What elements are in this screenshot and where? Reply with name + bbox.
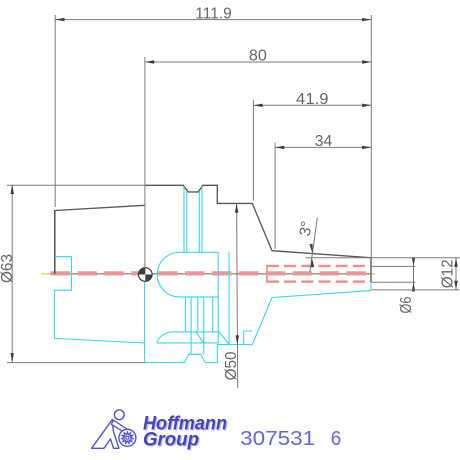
dimension 34 [275,133,371,249]
svg-text:Ø6: Ø6 [398,297,415,314]
red highlight dashed bottom edge [267,280,370,283]
part upper outline: HSK shank taper and left face [55,185,371,282]
lower outline: left face bottom [54,290,144,362]
logo arm [111,420,130,434]
gauge plane center mark circle [139,268,153,282]
centerline (thin gray axis) [41,273,372,275]
svg-text:80: 80 [249,48,267,65]
centerline yellow end cap left [41,273,50,275]
centerline yellow end cap right [370,273,375,275]
Hoffmann Group logo: head [114,410,124,420]
svg-text:Ø63: Ø63 [0,254,16,283]
dimension Ø63 [0,185,145,363]
lower internal wing blade [157,332,170,343]
lower internal wing diagonal [196,332,204,343]
internal bore cavity (cyan, upper) : groove verticals [184,187,202,253]
dimension Ø50 [223,203,240,388]
lower internal horizontal shelf [170,331,218,333]
internal bore cavity outline with round nose [157,252,218,297]
internal vertical x=218.2 [217,252,219,343]
lower internal clamping detail verticals [185,297,212,355]
groove bottom line (cyan) [189,353,201,355]
logo body triangle [92,420,119,449]
logo wheel star [121,431,134,444]
svg-text:41.9: 41.9 [296,91,329,108]
angle dimension 3° leader [297,218,318,273]
lower internal relief box [244,331,253,345]
red highlight dashed top edge [267,265,370,268]
logo text shadow [144,415,228,452]
dimension 41.9 [253,91,371,201]
red highlight box of clamping bore Ø6 : left edge [266,265,268,283]
internal vertical x=229.1 [228,252,230,344]
lower outline (cyan layer): shank step [54,257,71,291]
logo text [143,413,227,450]
svg-text:3°: 3° [297,220,316,238]
dimension 111.9 [55,5,371,258]
logo wheel [119,429,136,446]
dimension Ø6 [372,257,416,313]
svg-text:34: 34 [315,133,333,150]
svg-text:Ø12: Ø12 [439,259,456,288]
centerline red dashes [51,271,371,275]
lower internal diagonal [218,331,229,345]
lower outline: flange bottom with groove [145,282,371,363]
dimension Ø12 [306,258,460,290]
lower internal wing bottom line [157,342,218,344]
svg-text:Ø50: Ø50 [223,351,240,380]
dimension 80 [145,48,371,268]
svg-text:Group: Group [143,429,199,450]
lower outline: gauge plane vertical (cyan) [144,274,146,343]
svg-text:111.9: 111.9 [195,5,232,22]
part number 307531 6 [240,427,341,450]
